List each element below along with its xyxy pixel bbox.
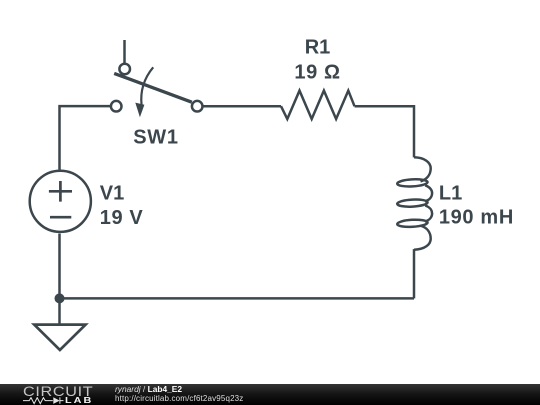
switch SW1 actuation arrow arc xyxy=(141,67,153,105)
credit text xyxy=(115,385,243,404)
wire: junction to ground symbol xyxy=(58,298,61,325)
switch SW1 arrowhead xyxy=(135,103,144,118)
inductor L1 xyxy=(397,157,432,249)
CircuitLab logo wordmark CIRCUIT xyxy=(23,384,131,399)
svg-text:19 V: 19 V xyxy=(100,207,144,229)
svg-text:R1: R1 xyxy=(305,36,331,58)
wire: inductor L1 bottom to bottom-right corner xyxy=(413,249,416,298)
svg-text:V1: V1 xyxy=(100,183,124,205)
switch SW1 top terminal circle xyxy=(119,64,130,75)
switch SW1 right terminal circle xyxy=(192,101,203,112)
junction dot at V1-/ground node xyxy=(55,293,65,303)
wire: switch right terminal to resistor R1 xyxy=(203,105,281,108)
V1 minus sign xyxy=(50,216,71,219)
wire: V1 top to switch left terminal xyxy=(60,106,111,169)
switch SW1 left terminal circle xyxy=(111,101,122,112)
voltage source V1 circle xyxy=(30,171,91,232)
switch SW1 blade xyxy=(114,73,192,102)
svg-text:SW1: SW1 xyxy=(133,126,178,148)
svg-text:19 Ω: 19 Ω xyxy=(294,61,340,83)
wire: V1 bottom to junction xyxy=(58,234,61,299)
wire: resistor R1 to top-right corner down to inductor L1 xyxy=(355,106,415,157)
resistor R1 xyxy=(281,91,355,119)
footer bar xyxy=(0,384,540,405)
CircuitLab logo zigzag + diode xyxy=(23,397,65,405)
CircuitLab logo wordmark LAB xyxy=(65,396,93,405)
ground symbol xyxy=(34,325,85,350)
wire: bottom net from ground junction to right corner xyxy=(60,297,415,300)
svg-text:L1: L1 xyxy=(439,182,462,204)
wire: switch top stub xyxy=(123,40,126,63)
svg-text:190 mH: 190 mH xyxy=(439,206,514,228)
V1 plus sign xyxy=(49,181,72,202)
